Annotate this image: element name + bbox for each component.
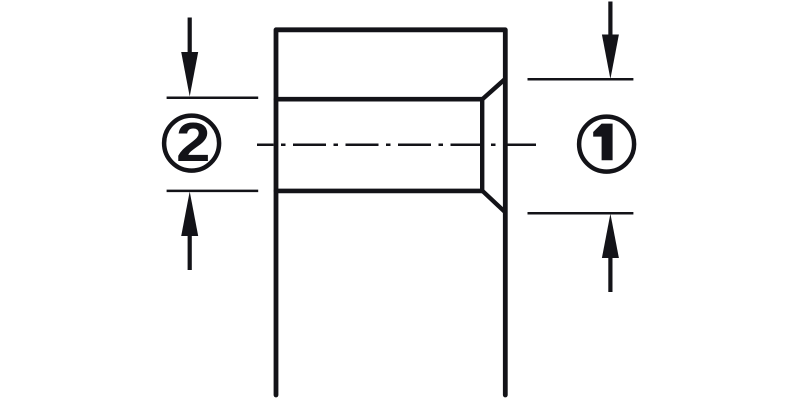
balloon 2 [164,112,219,173]
countersink bottom chamfer [482,191,505,213]
countersink top chamfer [482,79,505,100]
arrow right bottom [602,214,619,292]
dimension line 1 upper [528,78,634,81]
centerline [257,144,536,147]
dimension line 2 upper [167,97,259,100]
arrow left bottom [181,192,198,271]
hole top edge [276,97,482,102]
arrow right top [602,2,619,80]
balloon 1 [579,117,634,172]
dimension line 1 lower [528,212,634,215]
part outline [276,30,505,395]
dimension line 2 lower [167,190,259,193]
arrow left top [181,18,198,97]
countersink base line [480,99,484,191]
svg-text:2: 2 [176,112,210,173]
hole bottom edge [276,189,482,194]
